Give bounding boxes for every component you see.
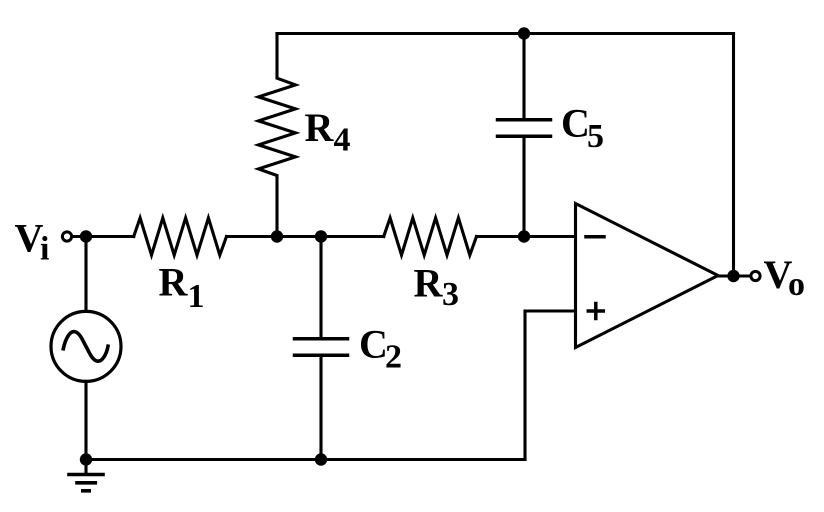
resistor R4 (259, 34, 296, 237)
terminal Vi open circle (62, 232, 71, 241)
svg-text:o: o (788, 266, 805, 303)
node R4 bottom junction (271, 230, 283, 242)
svg-text:1: 1 (188, 278, 205, 315)
wire bottom ground rail (86, 458, 525, 461)
node ground junction (80, 453, 92, 465)
svg-text:C: C (561, 101, 590, 146)
wire op-amp non-inverting input (525, 311, 576, 460)
svg-text:i: i (40, 231, 49, 268)
svg-text:R: R (159, 260, 189, 305)
wire op-amp output (718, 274, 750, 277)
svg-text:5: 5 (587, 118, 604, 155)
node output junction (727, 270, 739, 282)
wire top feedback horizontal (277, 32, 734, 35)
node input junction (80, 230, 92, 242)
svg-text:R: R (305, 105, 335, 150)
svg-text:C: C (359, 322, 388, 367)
svg-text:3: 3 (442, 276, 459, 313)
svg-text:4: 4 (334, 121, 351, 158)
svg-text:2: 2 (385, 339, 402, 376)
wire R1 to R3 (227, 235, 384, 238)
node top wire C5 junction (518, 27, 530, 39)
resistor R1 (134, 218, 227, 255)
node C2 top junction (315, 230, 327, 242)
node C2 bottom junction (315, 453, 327, 465)
source V1 sine generator (51, 237, 121, 460)
node summing junction C5 bottom (518, 230, 530, 242)
svg-text:R: R (414, 260, 444, 305)
terminal Vo open circle (751, 271, 760, 280)
wire feedback vertical right (732, 34, 735, 277)
wire Vi terminal to R1 (73, 235, 134, 238)
op-amp U1 (576, 204, 719, 348)
wire R3 to op-amp inverting input (477, 235, 576, 238)
capacitor C2 (295, 237, 348, 460)
capacitor C5 (498, 34, 551, 237)
resistor R3 (384, 218, 477, 255)
ground (69, 460, 103, 491)
